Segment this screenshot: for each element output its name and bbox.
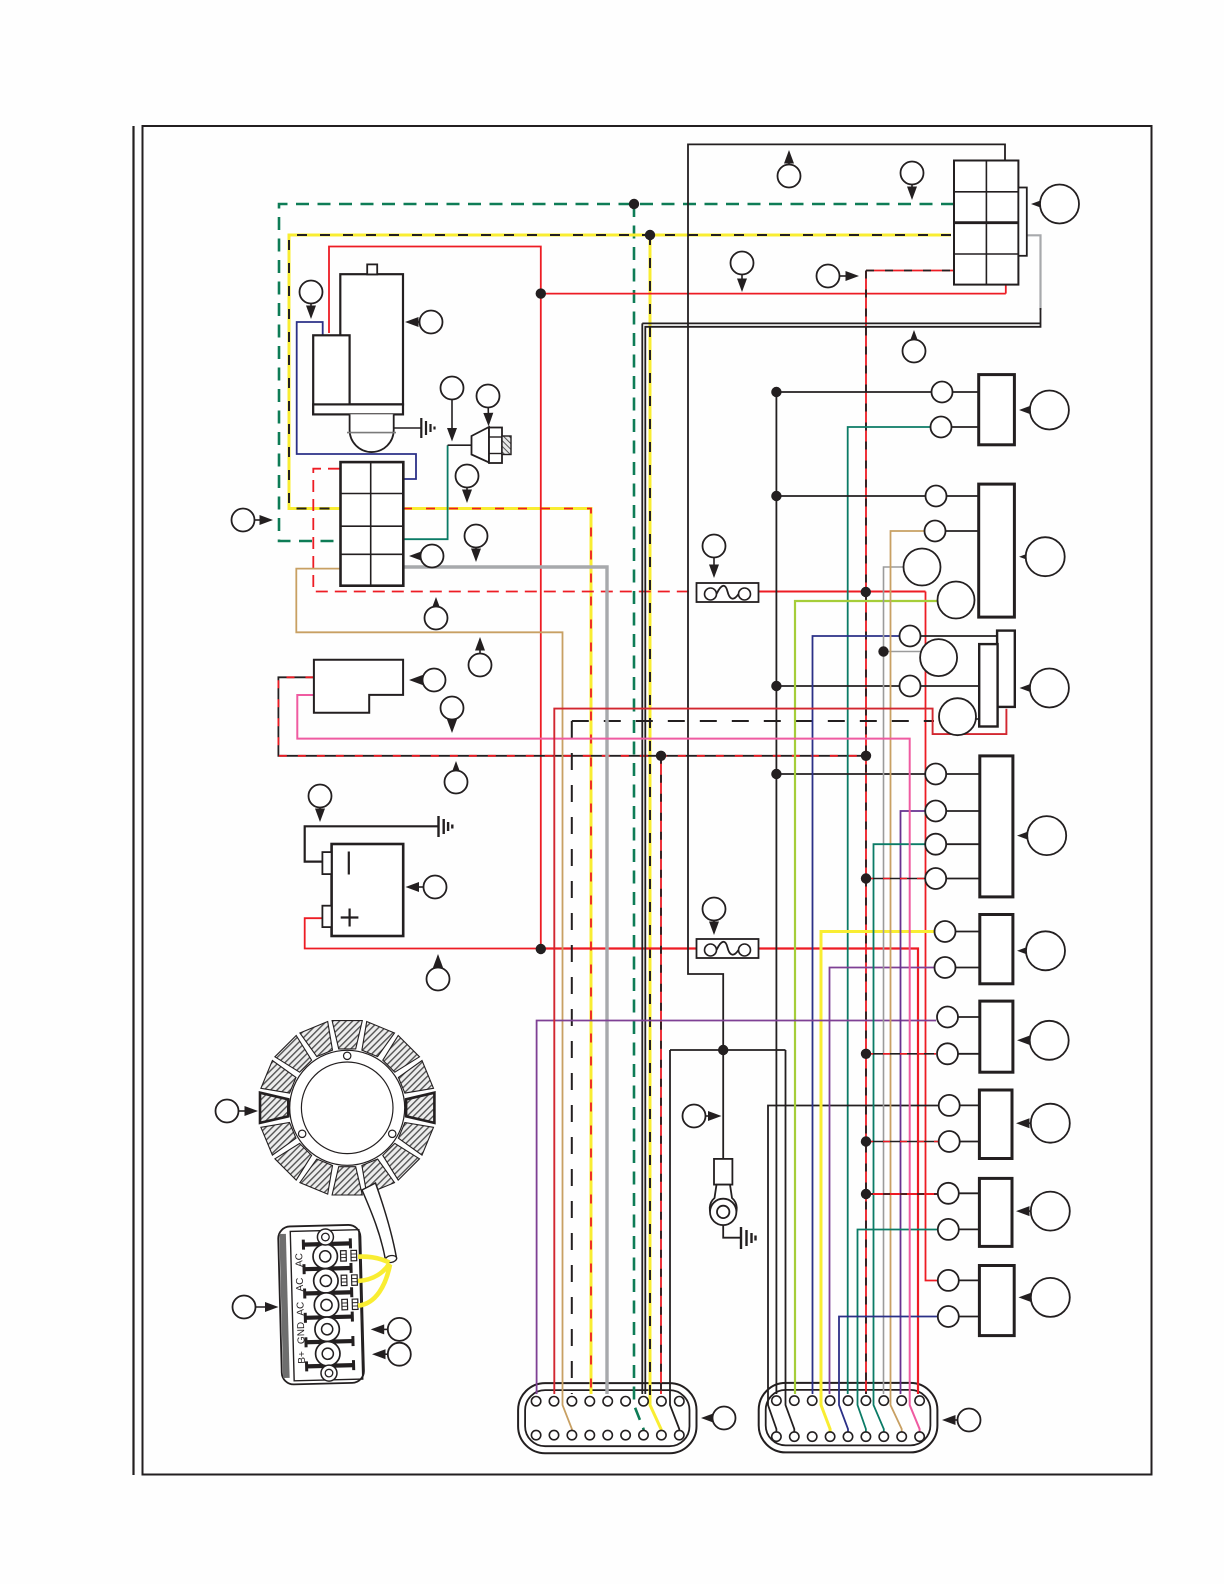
- svg-text:B+: B+: [297, 1351, 308, 1364]
- svg-text:AC: AC: [295, 1302, 306, 1316]
- svg-text:AC: AC: [294, 1253, 305, 1267]
- svg-text:GND: GND: [296, 1322, 308, 1345]
- svg-text:AC: AC: [295, 1277, 306, 1291]
